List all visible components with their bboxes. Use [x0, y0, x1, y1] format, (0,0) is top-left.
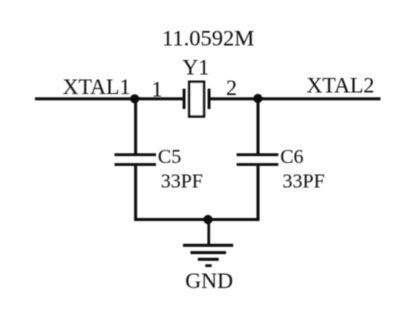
crystal Y1 right plate — [208, 89, 211, 109]
svg-text:Y1: Y1 — [182, 55, 209, 80]
svg-text:GND: GND — [185, 268, 233, 293]
capacitor C6 top plate — [237, 153, 279, 156]
ground symbol bar 4 — [205, 264, 211, 267]
svg-text:33PF: 33PF — [283, 171, 325, 193]
svg-text:XTAL2: XTAL2 — [307, 73, 375, 98]
wire: ground stem — [207, 220, 210, 245]
wire: left vertical from junction down to C5 top plate — [134, 99, 137, 154]
svg-text:C6: C6 — [280, 146, 303, 168]
wire: right vertical from junction down to C6 top plate — [257, 99, 260, 154]
svg-text:2: 2 — [226, 75, 237, 100]
node: junction dot at ground stem — [203, 215, 212, 224]
wire: left vertical from C5 bottom plate down to bottom rail — [134, 166, 137, 221]
svg-text:XTAL1: XTAL1 — [63, 74, 131, 99]
node: junction dot at XTAL2 branch — [253, 94, 262, 103]
node: junction dot at XTAL1 branch — [130, 94, 139, 103]
svg-text:33PF: 33PF — [161, 171, 203, 193]
wire: bottom horizontal rail joining C5 and C6 to ground stem — [134, 218, 259, 221]
capacitor C6 bottom plate — [237, 163, 279, 166]
capacitor C5 bottom plate — [115, 163, 157, 166]
capacitor C5 top plate — [115, 153, 157, 156]
svg-text:C5: C5 — [158, 146, 181, 168]
svg-text:11.0592M: 11.0592M — [162, 26, 254, 51]
crystal Y1 body rectangle — [189, 82, 204, 117]
svg-text:1: 1 — [152, 77, 163, 102]
wire: right horizontal segment from crystal Y1 pin 2 to XTAL2 — [209, 97, 381, 100]
wire: left horizontal segment from XTAL1 to crystal Y1 pin 1 — [35, 97, 184, 100]
crystal Y1 left plate — [183, 89, 186, 109]
ground symbol bar 1 — [183, 244, 233, 247]
ground symbol bar 3 — [198, 258, 219, 261]
ground symbol bar 2 — [191, 251, 227, 254]
wire: right vertical from C6 bottom plate down to bottom rail — [257, 166, 260, 221]
